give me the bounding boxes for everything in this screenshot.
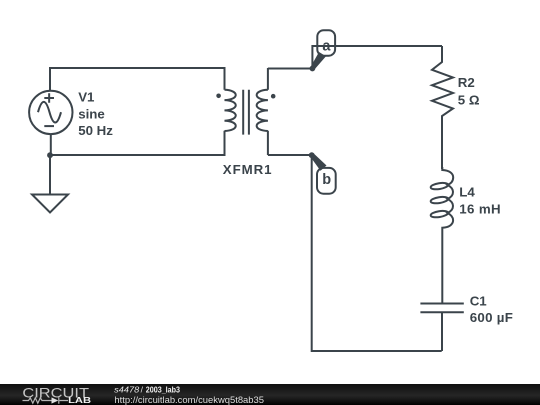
svg-text:600 µF: 600 µF xyxy=(470,310,513,325)
svg-text:LAB: LAB xyxy=(68,395,91,405)
svg-text:a: a xyxy=(322,38,331,54)
svg-text:V1: V1 xyxy=(78,89,95,104)
svg-text:sine: sine xyxy=(78,106,105,121)
svg-text:XFMR1: XFMR1 xyxy=(223,162,273,177)
svg-text:50 Hz: 50 Hz xyxy=(78,123,113,138)
svg-text:b: b xyxy=(322,172,331,188)
svg-text:5 Ω: 5 Ω xyxy=(458,93,480,108)
svg-text:16 mH: 16 mH xyxy=(459,202,501,217)
svg-text:R2: R2 xyxy=(458,75,475,90)
svg-text:C1: C1 xyxy=(470,293,488,308)
svg-text:http://circuitlab.com/cuekwq5t: http://circuitlab.com/cuekwq5t8ab35 xyxy=(114,394,264,405)
svg-text:L4: L4 xyxy=(459,184,475,199)
